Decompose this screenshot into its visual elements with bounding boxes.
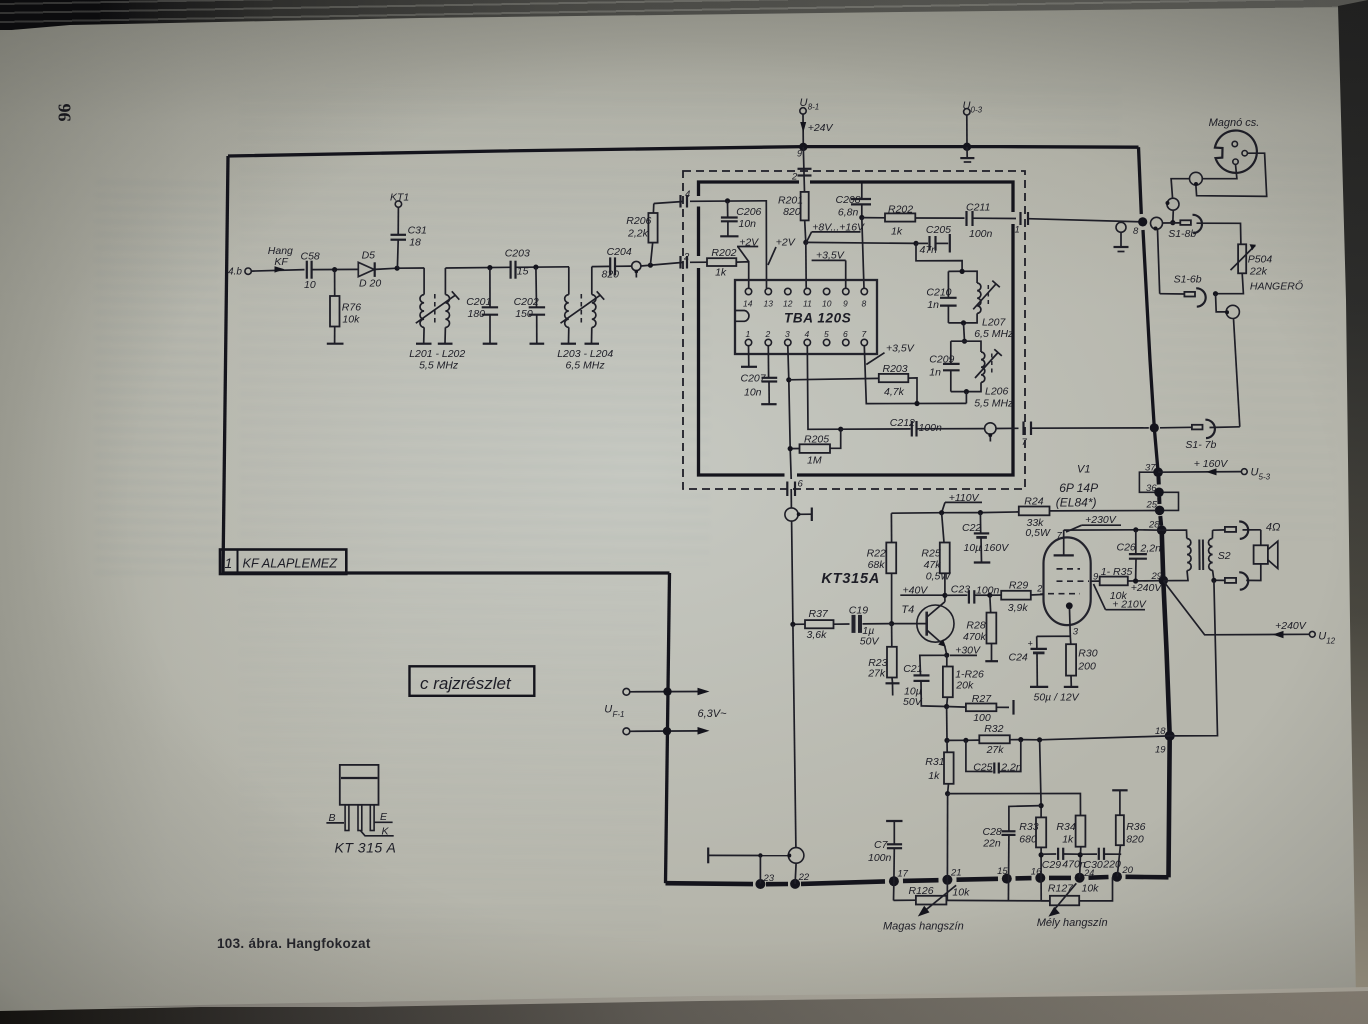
svg-text:1: 1: [746, 329, 751, 339]
+110V rail: [891, 512, 1018, 513]
node 22: [790, 879, 800, 889]
svg-text:R30: R30: [1078, 647, 1097, 659]
svg-text:R203: R203: [883, 363, 908, 375]
wire edge pin 4 to pin 13: [690, 201, 767, 288]
resistor R37: [793, 608, 834, 641]
svg-text:1M: 1M: [807, 455, 822, 467]
switch S1-7b: [1160, 420, 1240, 451]
svg-text:R126: R126: [909, 885, 934, 897]
voltage label +30V: [950, 645, 981, 657]
svg-text:1k: 1k: [928, 770, 940, 782]
svg-text:C204: C204: [607, 246, 632, 258]
node 29: [1159, 576, 1169, 586]
svg-text:12: 12: [1326, 637, 1335, 646]
edge pin 6: [787, 479, 803, 497]
svg-text:4: 4: [805, 329, 810, 339]
capacitor C30: [1081, 848, 1122, 871]
svg-text:10k: 10k: [952, 886, 970, 898]
svg-text:5-3: 5-3: [1259, 473, 1271, 482]
wire node to R34: [948, 794, 1081, 816]
svg-text:9: 9: [843, 299, 848, 309]
svg-text:Magas hangszín: Magas hangszín: [883, 921, 964, 933]
voltage label +3,5V at pin 7: [866, 342, 914, 364]
node C23 tap: [942, 593, 947, 598]
svg-text:C25: C25: [973, 762, 992, 774]
label box 1 KF ALAPLEMEZ: [220, 550, 346, 575]
capacitor C208: [836, 184, 872, 219]
svg-text:2: 2: [765, 329, 771, 339]
svg-text:20k: 20k: [955, 680, 974, 692]
wire junction down to jack: [1216, 294, 1227, 312]
svg-text:8: 8: [1133, 226, 1139, 237]
svg-text:U: U: [604, 703, 612, 715]
wire U8-1 to R201 with edge pin 2 of module: [791, 147, 812, 192]
junction on S1-8b wire: [1170, 220, 1175, 225]
svg-text:103. ábra. Hangfokozat: 103. ábra. Hangfokozat: [217, 936, 371, 951]
board outline: middle shelf border: [222, 571, 670, 574]
tank circuit C210 L207: [926, 271, 1014, 340]
tube V1 envelope: [1044, 537, 1091, 625]
wire tank2 to pin7 wire: [965, 392, 967, 404]
IC top pin circles: [743, 288, 868, 308]
svg-text:+3,5V: +3,5V: [816, 249, 845, 261]
cathode node wires: [1037, 636, 1071, 644]
node R206: [648, 263, 653, 268]
wire S1-8b to P504: [1197, 223, 1241, 244]
svg-text:100n: 100n: [868, 852, 892, 864]
svg-text:6: 6: [843, 329, 848, 339]
wire L202 to C203: [445, 266, 510, 269]
resistor R30: [1064, 644, 1098, 687]
svg-text:R27: R27: [972, 693, 992, 705]
node 18 19: [1165, 731, 1175, 741]
speaker 4ohm: [1246, 521, 1280, 580]
svg-text:3: 3: [785, 329, 790, 339]
svg-text:+230V: +230V: [1085, 514, 1117, 526]
svg-text:+2V: +2V: [776, 236, 796, 248]
svg-text:13: 13: [764, 299, 774, 309]
voltage label +2V at pin14: [737, 236, 759, 261]
svg-text:+240V: +240V: [1131, 582, 1163, 594]
wire R126 right to C28 and R127: [946, 899, 1050, 902]
speaker connector top: [1213, 521, 1261, 538]
svg-text:100n: 100n: [919, 422, 943, 434]
svg-text:2: 2: [791, 172, 798, 183]
svg-text:180: 180: [468, 308, 486, 320]
svg-text:47n: 47n: [920, 244, 938, 256]
connector box node 36-25: [1159, 492, 1179, 510]
heater terminals UF-1: [604, 687, 727, 735]
svg-text:+ 210V: + 210V: [1112, 599, 1147, 611]
svg-text:19: 19: [1155, 745, 1166, 756]
speaker connector bottom: [1214, 572, 1248, 589]
svg-text:2,2k: 2,2k: [627, 227, 649, 239]
svg-text:5: 5: [824, 329, 829, 339]
svg-text:E: E: [380, 811, 388, 823]
svg-text:6: 6: [798, 479, 804, 490]
diode D5 D20: [358, 249, 381, 289]
svg-text:7: 7: [862, 329, 867, 339]
svg-text:R25: R25: [921, 547, 940, 559]
capacitor C205: [916, 224, 951, 256]
svg-text:R34: R34: [1056, 821, 1075, 833]
wire P504 bottom to S1-6b junction: [1216, 273, 1244, 293]
voltage label +2V at pin13: [768, 236, 796, 265]
transformer L201-L202 5.5MHz: [409, 268, 465, 372]
node 23: [755, 879, 765, 889]
svg-text:8-1: 8-1: [808, 103, 820, 112]
node C205: [913, 241, 918, 246]
svg-text:4.b: 4.b: [228, 267, 242, 278]
svg-text:R22: R22: [867, 547, 886, 559]
svg-text:28: 28: [1148, 520, 1160, 531]
grid pin 2 (wire from R29 enters at left): [1040, 593, 1044, 595]
resistor R201: [778, 192, 809, 243]
wire C211 to module edge pin 1: [973, 217, 1016, 219]
node R203 on pin7 wire: [914, 401, 919, 406]
node 17: [889, 876, 899, 886]
svg-text:R76: R76: [342, 302, 361, 314]
svg-text:6,5 MHz: 6,5 MHz: [566, 360, 606, 372]
svg-text:6,3V~: 6,3V~: [698, 708, 728, 720]
svg-text:S1- 7b: S1- 7b: [1185, 439, 1216, 451]
svg-text:12: 12: [783, 299, 793, 309]
svg-text:KT315A: KT315A: [821, 571, 880, 587]
svg-text:F-1: F-1: [613, 710, 625, 719]
resistor R206: [626, 204, 657, 266]
svg-text:+: +: [1028, 639, 1033, 649]
svg-text:100n: 100n: [969, 228, 993, 240]
wire node29 diagonal to U12: [1163, 581, 1309, 638]
edge pin 2: [681, 252, 691, 269]
node tank2 bottom: [964, 389, 969, 394]
svg-text:Magnó cs.: Magnó cs.: [1209, 117, 1260, 129]
supply terminal U5-3 with +160V: [1158, 458, 1271, 482]
svg-text:15: 15: [997, 866, 1008, 877]
resistor R27: [947, 693, 1014, 724]
node 25: [1155, 506, 1165, 516]
capacitor C28: [982, 806, 1041, 902]
svg-text:L201 - L202: L201 - L202: [409, 348, 465, 360]
svg-text:0,5W: 0,5W: [926, 571, 952, 583]
svg-text:L206: L206: [985, 386, 1009, 398]
resistor R24: [1019, 496, 1156, 540]
svg-text:11: 11: [803, 299, 812, 309]
svg-text:9: 9: [797, 149, 802, 159]
node 28: [1157, 525, 1167, 535]
svg-text:4Ω: 4Ω: [1266, 521, 1281, 533]
svg-text:KF ALAPLEMEZ: KF ALAPLEMEZ: [243, 556, 339, 571]
jack connector below pin 6: [785, 489, 812, 521]
node 8: [1138, 217, 1147, 226]
wire S1-6b up to contact: [1158, 230, 1160, 294]
svg-text:C29: C29: [1042, 859, 1061, 871]
node after C58: [332, 267, 337, 272]
jack connector on C212 wire: [985, 423, 996, 442]
supply terminal U8-1: [800, 97, 834, 146]
svg-text:96: 96: [55, 104, 75, 122]
svg-text:U: U: [1251, 467, 1259, 479]
svg-text:27k: 27k: [986, 744, 1005, 756]
node 15: [1002, 874, 1012, 884]
node R32 rail left: [944, 738, 949, 743]
svg-text:470k: 470k: [963, 631, 987, 643]
jack connector at node 22: [787, 848, 804, 884]
R32 rail wire: [947, 739, 979, 741]
resistor R25: [921, 513, 951, 602]
svg-text:R202: R202: [888, 203, 913, 215]
svg-text:5,5 MHz: 5,5 MHz: [974, 398, 1014, 410]
wire input to C58: [251, 270, 304, 272]
svg-text:V1: V1: [1077, 463, 1090, 475]
IC bottom pin circles: [745, 329, 867, 346]
node R28 tap: [987, 593, 992, 598]
svg-text:10n: 10n: [744, 387, 762, 399]
node 16: [1035, 873, 1045, 883]
svg-text:50V: 50V: [903, 696, 923, 708]
svg-text:C21: C21: [903, 663, 922, 675]
capacitor C26: [1117, 530, 1162, 581]
resistor R22: [867, 513, 897, 623]
wire R206 to edge pin 4: [654, 202, 683, 204]
wire jack down to R37 node: [792, 521, 793, 624]
svg-text:5,5 MHz: 5,5 MHz: [419, 360, 459, 372]
svg-text:C202: C202: [514, 296, 539, 308]
switch S1-8b: [1163, 215, 1203, 240]
svg-text:R206: R206: [626, 215, 651, 227]
transformer core: [1199, 540, 1203, 571]
transistor T4 KT315A: [892, 602, 954, 655]
output transformer secondary S2: [1208, 530, 1230, 580]
svg-text:820: 820: [1126, 833, 1144, 845]
voltage label +8V...+16V: [806, 222, 865, 243]
emitter node: [944, 653, 949, 658]
capacitor C202: [514, 267, 546, 344]
wire node to pin 8: [862, 218, 864, 289]
pin 7 wire: [864, 346, 966, 404]
svg-text:(EL84*): (EL84*): [1056, 496, 1097, 510]
voltage label +3,5V at pin 9: [812, 249, 846, 288]
node C202: [533, 265, 538, 270]
svg-text:2,2n: 2,2n: [1000, 762, 1022, 774]
svg-text:R31: R31: [925, 756, 944, 768]
node R205 pin3: [788, 446, 793, 451]
svg-text:1n: 1n: [929, 367, 941, 379]
pin 3 wire down: [788, 346, 791, 479]
test point KT1: [390, 192, 409, 235]
svg-text:25: 25: [1146, 499, 1158, 510]
svg-text:150: 150: [515, 308, 533, 320]
svg-text:22n: 22n: [982, 837, 1001, 849]
svg-text:C23: C23: [951, 583, 970, 595]
wire contact to contact: [1171, 179, 1189, 198]
resistor R34: [1056, 816, 1085, 878]
svg-text:S2: S2: [1218, 550, 1231, 562]
capacitor C19: [834, 605, 892, 648]
node at C31 branch: [395, 266, 400, 271]
node 37: [1153, 467, 1163, 477]
svg-text:20: 20: [1121, 865, 1133, 876]
svg-text:68k: 68k: [868, 559, 886, 571]
svg-text:C201: C201: [466, 296, 491, 308]
svg-text:22k: 22k: [1249, 265, 1268, 277]
svg-text:23: 23: [763, 873, 775, 884]
svg-text:TBA 120S: TBA 120S: [784, 311, 851, 326]
capacitor C207: [741, 346, 778, 405]
svg-text:14: 14: [743, 299, 753, 309]
svg-text:D5: D5: [362, 249, 376, 261]
svg-text:C210: C210: [926, 286, 951, 298]
node tank top: [960, 269, 965, 274]
svg-text:200: 200: [1077, 660, 1096, 672]
wire jack to module edge: [641, 262, 683, 266]
svg-text:C206: C206: [736, 206, 761, 218]
resistor R36: [1112, 790, 1145, 876]
resistor R202 input: [690, 247, 737, 279]
capacitor C7: [868, 821, 903, 881]
svg-text:R37: R37: [809, 608, 829, 620]
svg-text:10n: 10n: [739, 218, 757, 230]
svg-text:R24: R24: [1024, 496, 1043, 508]
tube V1 labels: [1056, 463, 1098, 509]
svg-text:3: 3: [1073, 627, 1079, 638]
svg-text:10k: 10k: [342, 313, 360, 325]
svg-text:820: 820: [602, 269, 620, 281]
capacitor C206: [720, 201, 761, 236]
svg-text:U: U: [1318, 631, 1326, 643]
svg-text:10: 10: [822, 299, 832, 309]
thick hybrid module box: [699, 182, 1014, 475]
svg-text:R33: R33: [1019, 821, 1038, 833]
wire to edge pin 7: [996, 427, 1019, 429]
svg-text:KF: KF: [274, 256, 288, 268]
svg-text:KT1: KT1: [390, 192, 409, 204]
svg-text:680: 680: [1019, 834, 1037, 846]
svg-text:4: 4: [685, 189, 690, 200]
svg-text:8: 8: [862, 299, 867, 309]
svg-text:47k: 47k: [924, 559, 942, 571]
node 20: [1112, 872, 1122, 882]
svg-text:17: 17: [897, 868, 908, 879]
output transformer primary: [1162, 530, 1191, 581]
node C26 top: [1133, 527, 1138, 532]
svg-text:R32: R32: [984, 723, 1003, 735]
wire C58 to diode: [312, 268, 358, 270]
svg-text:C26: C26: [1117, 541, 1136, 553]
pin 4 wire: [807, 346, 840, 430]
resistor R31: [925, 740, 953, 793]
svg-text:+240V: +240V: [1275, 620, 1307, 632]
wire jack down to S1-7b corner: [1234, 319, 1240, 427]
board outline: right border upper: [1139, 147, 1142, 214]
node 36: [1154, 488, 1164, 498]
svg-text:100: 100: [973, 712, 991, 724]
svg-text:C209: C209: [929, 354, 954, 366]
voltage +210V: [1094, 584, 1147, 611]
switch contact circle upper: [1190, 172, 1203, 186]
svg-text:C207: C207: [741, 373, 767, 385]
node R37 jack wire: [790, 622, 795, 627]
svg-text:50V: 50V: [860, 635, 880, 647]
capacitor C22: [962, 513, 1009, 563]
node C28 jog: [1039, 803, 1044, 808]
svg-text:R205: R205: [804, 433, 829, 445]
svg-text:1: 1: [1015, 225, 1020, 236]
jack circle volume: [1225, 305, 1239, 318]
svg-text:KT 315 A: KT 315 A: [335, 840, 397, 856]
svg-text:C30: C30: [1084, 859, 1103, 871]
tube cathode: [1066, 602, 1079, 637]
board outline: right bus lower (thick): [1162, 530, 1170, 877]
svg-text:HANGERŐ: HANGERŐ: [1250, 279, 1303, 293]
wire L204 to C204: [592, 265, 610, 267]
wire secondary down to node 18: [1170, 580, 1218, 736]
voltage label +40V: [900, 584, 944, 596]
svg-text:C31: C31: [408, 224, 427, 236]
tube grids dashed: [1048, 569, 1089, 594]
KT315A package drawing: [326, 765, 396, 856]
svg-text:R201: R201: [778, 195, 803, 207]
svg-text:10k: 10k: [1082, 882, 1100, 894]
svg-text:7: 7: [1057, 531, 1063, 542]
svg-text:27k: 27k: [867, 668, 886, 680]
svg-text:L203 - L204: L203 - L204: [557, 348, 613, 360]
resistor R203: [789, 363, 917, 404]
wire R37 node down to node 22 jack: [793, 624, 796, 847]
connector box node 37-36: [1139, 472, 1159, 492]
svg-text:Mély hangszín: Mély hangszín: [1037, 917, 1108, 929]
node C21 R27: [944, 704, 949, 709]
resistor R76: [330, 270, 361, 344]
wire DIN right pin loop: [1196, 153, 1267, 196]
capacitor C203: [505, 248, 530, 279]
signal arrow: [275, 266, 285, 272]
chassis jack on C211 wire: [1114, 222, 1129, 251]
node 24: [1075, 873, 1085, 883]
chassis stub at node 23: [708, 848, 789, 884]
pin 1 ground: [741, 346, 757, 367]
board outline: bottom bus: [666, 881, 754, 886]
DIN connector Magno cs.: [1209, 117, 1260, 173]
svg-text:36: 36: [1146, 483, 1157, 494]
svg-text:3,6k: 3,6k: [807, 629, 828, 641]
board outline: KF ALAPLEMEZ top border: [228, 147, 1139, 156]
edge pin 1: [1015, 212, 1029, 236]
voltage +230V: [1066, 514, 1121, 532]
svg-text:C24: C24: [1009, 651, 1028, 663]
svg-text:18: 18: [409, 236, 421, 248]
wire node to C205 node: [806, 242, 916, 243]
resistor R32: [979, 723, 1010, 756]
resistor R26: [943, 655, 984, 706]
page number 96: [55, 104, 75, 122]
svg-text:37: 37: [1145, 463, 1156, 474]
svg-text:S1-6b: S1-6b: [1174, 274, 1202, 286]
resistor R35: [1091, 566, 1159, 602]
supply terminal U0-3: [963, 100, 983, 147]
wire R26 node down to rail: [946, 707, 948, 741]
capacitor C204: [602, 246, 632, 280]
capacitor C212: [841, 417, 985, 436]
node pin11 branch: [803, 240, 808, 245]
junction S1-6b: [1213, 291, 1218, 296]
tube anode pin 7: [1054, 530, 1074, 555]
jack connector at C204: [632, 261, 641, 277]
capacitor C24 electrolytic: [1009, 636, 1080, 703]
dashed module boundary box: [683, 171, 1025, 489]
svg-text:1: 1: [225, 555, 233, 571]
edge pin 7: [1022, 422, 1032, 449]
